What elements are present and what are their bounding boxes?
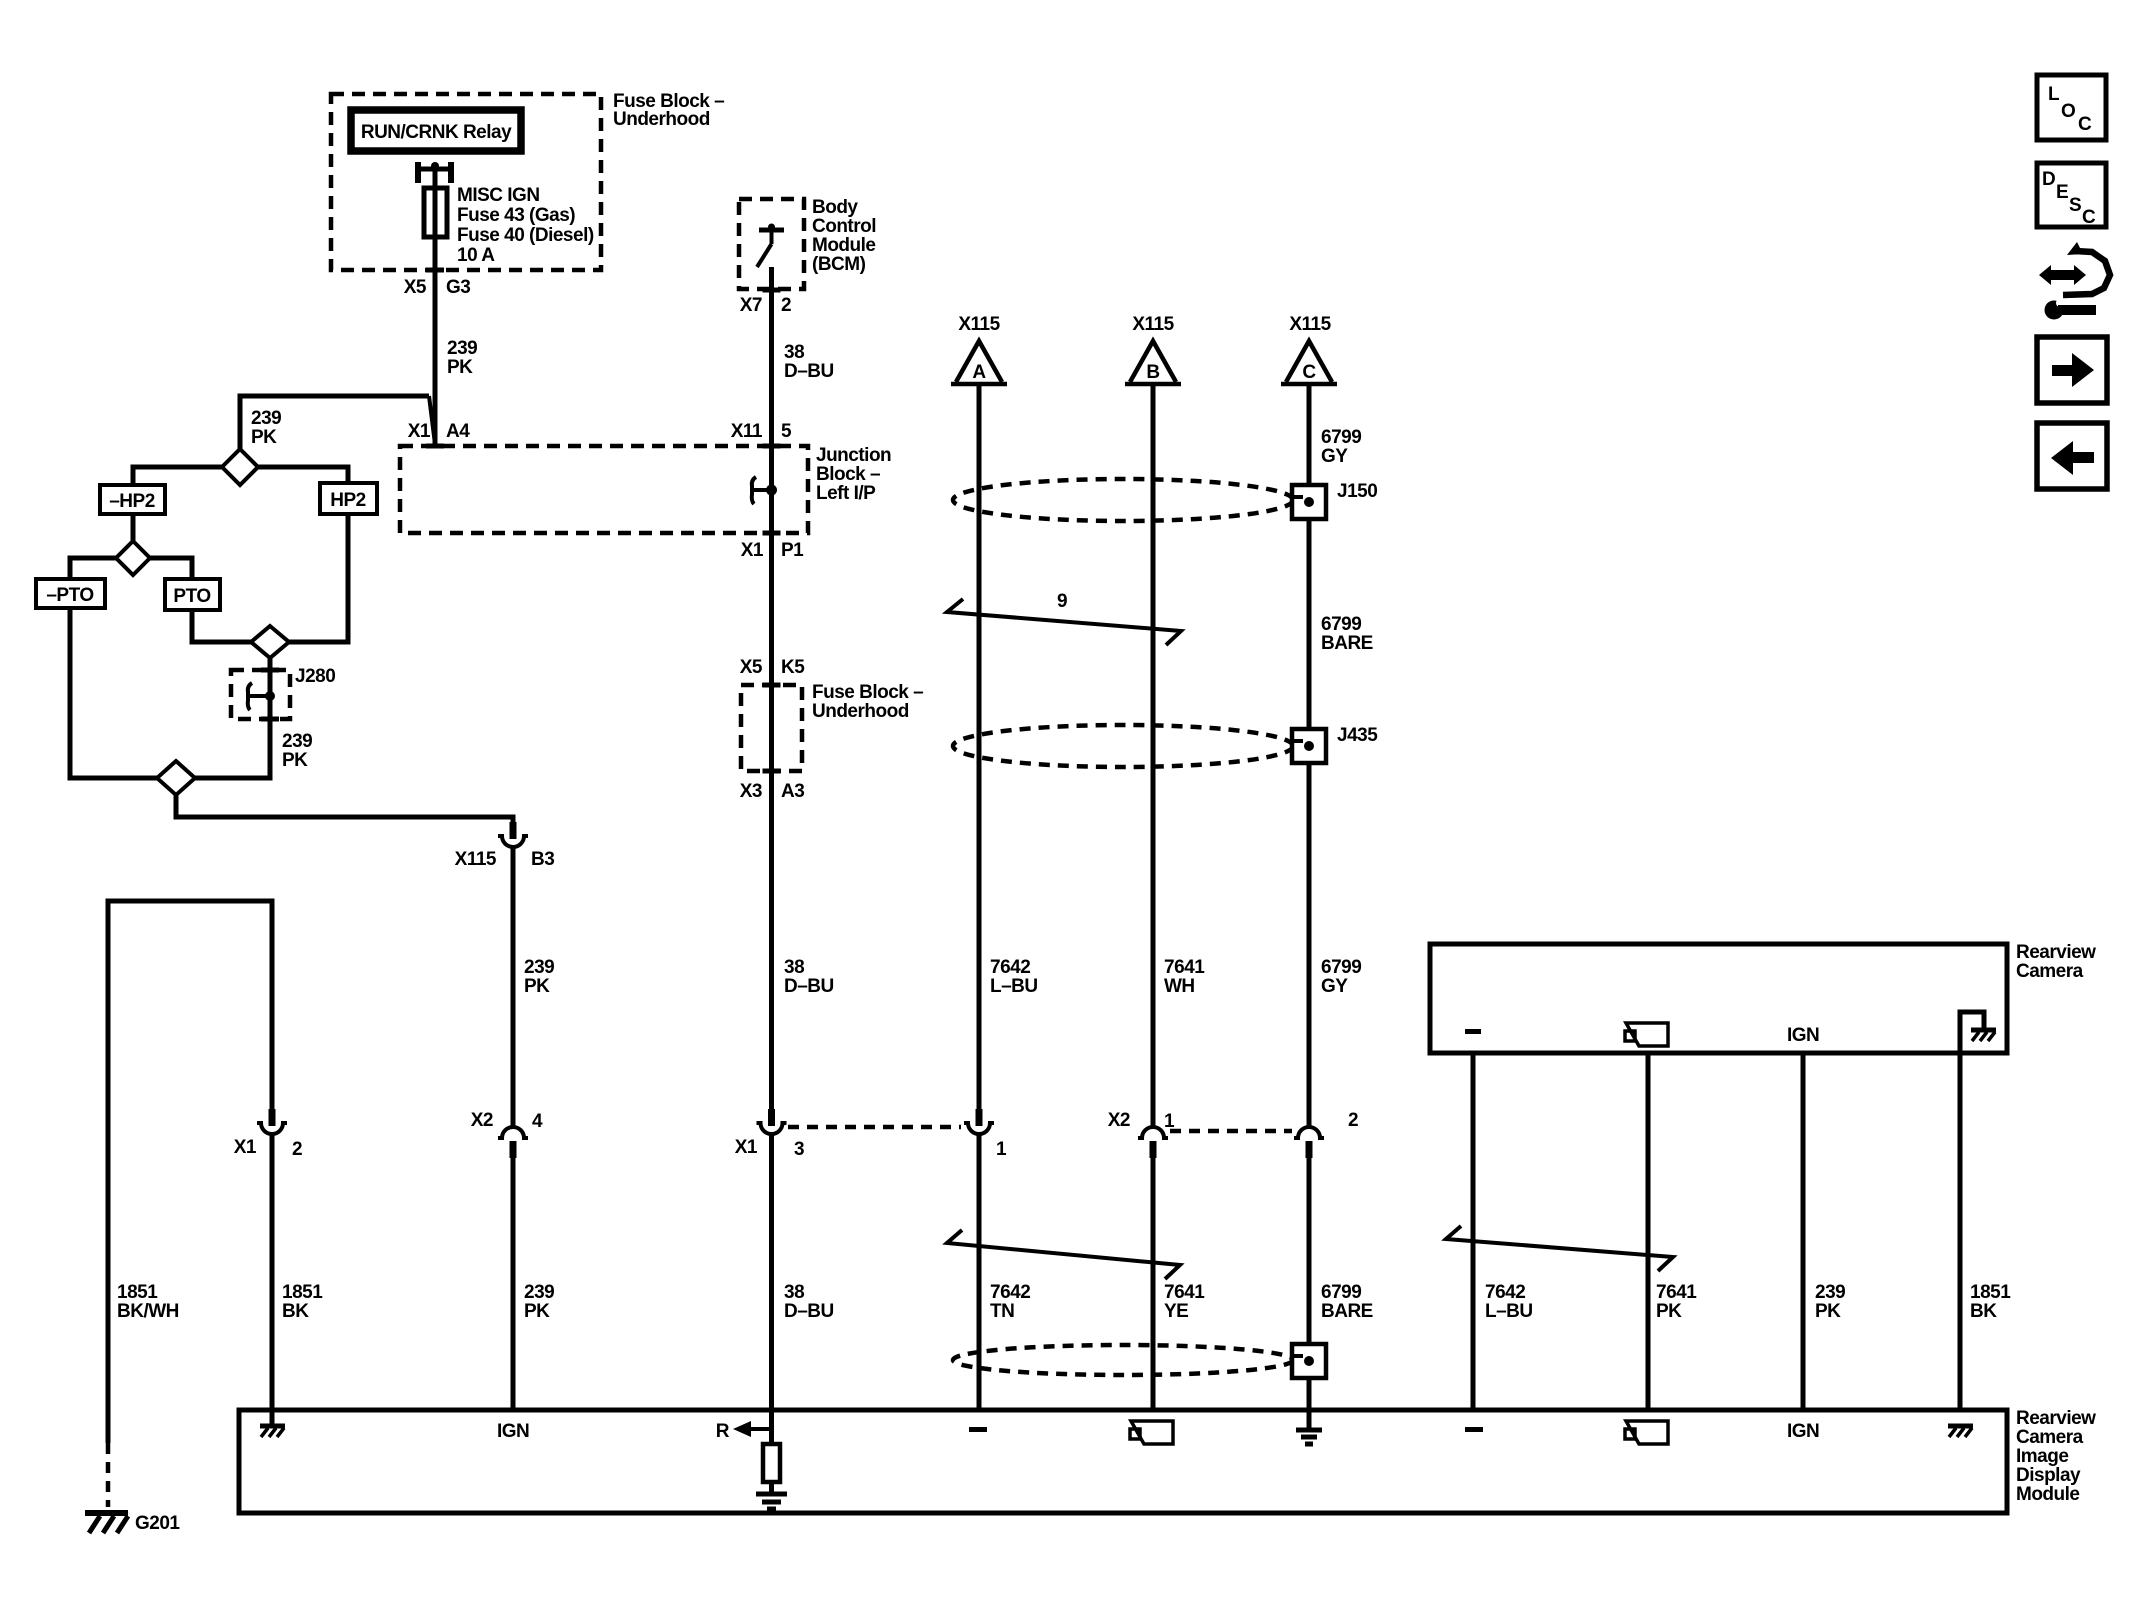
earth ground (wire C shield): [1296, 1430, 1322, 1444]
svg-text:9: 9: [1057, 591, 1067, 612]
svg-text:1851: 1851: [117, 1282, 158, 1303]
svg-text:4: 4: [532, 1111, 543, 1132]
svg-text:Body: Body: [812, 197, 858, 218]
label Rearview Camera Image Display Module: [2016, 1408, 2096, 1505]
wire through junction block: [769, 465, 774, 685]
svg-text:D–BU: D–BU: [784, 361, 834, 382]
wire 7642 L-BU camera to display: [1471, 1053, 1476, 1410]
svg-text:X115: X115: [958, 314, 1000, 335]
svg-text:Camera: Camera: [2016, 961, 2084, 982]
camera chassis ground symbol: [1971, 1030, 1996, 1041]
svg-text:MISC IGN: MISC IGN: [457, 185, 540, 206]
icon box LOC: [2037, 75, 2106, 140]
svg-text:X115: X115: [455, 849, 497, 870]
wire S4 to connector X115 B3: [176, 795, 513, 822]
shield ellipse 2: [953, 725, 1293, 767]
rearview camera box: [1430, 944, 2007, 1053]
label Rearview Camera: [2016, 942, 2096, 982]
fuse block underhood dashed box (middle): [741, 685, 802, 771]
svg-text:BARE: BARE: [1321, 1301, 1373, 1322]
pin tick X5/G3 at fuse block bottom: [426, 268, 444, 273]
display chassis ground (right): [1948, 1426, 1973, 1437]
svg-text:–PTO: –PTO: [46, 585, 93, 606]
connector J280 dashed box: [231, 670, 290, 719]
camera icon (display, right): [1625, 1421, 1668, 1444]
svg-text:X3: X3: [740, 781, 762, 802]
wire 6799 GY from triangle C: [1307, 384, 1312, 1126]
wire -PTO to splice S4: [70, 608, 157, 778]
svg-text:2: 2: [292, 1139, 302, 1160]
tick fuse block bottom X3/A3: [763, 769, 781, 774]
svg-text:Rearview: Rearview: [2016, 1408, 2096, 1429]
svg-text:IGN: IGN: [497, 1421, 529, 1442]
svg-text:X115: X115: [1289, 314, 1331, 335]
svg-text:D–BU: D–BU: [784, 1301, 834, 1322]
splice diamond S3: [251, 626, 289, 658]
icon box arrow left: [2037, 423, 2107, 489]
svg-text:Camera: Camera: [2016, 1427, 2084, 1448]
svg-text:7641: 7641: [1164, 1282, 1205, 1303]
svg-text:GY: GY: [1321, 446, 1348, 467]
icon box arrow right: [2037, 337, 2107, 403]
tick junction block top X1/A4: [426, 444, 444, 449]
svg-text:X2: X2: [471, 1110, 493, 1131]
svg-text:Fuse Block –: Fuse Block –: [812, 682, 923, 703]
svg-text:A3: A3: [781, 781, 804, 802]
svg-text:7642: 7642: [990, 1282, 1030, 1303]
svg-text:PK: PK: [524, 976, 550, 997]
svg-text:TN: TN: [990, 1301, 1014, 1322]
fuse F MISC IGN 10A: [424, 188, 447, 237]
svg-text:J435: J435: [1337, 725, 1378, 746]
svg-text:S: S: [2069, 195, 2081, 216]
svg-text:Control: Control: [812, 216, 876, 237]
camera icon (camera box): [1625, 1023, 1668, 1046]
junction block left I/P dashed box: [400, 446, 808, 533]
svg-text:J280: J280: [295, 666, 335, 687]
splice diamond S2: [116, 541, 150, 575]
wire J280 to splice S4: [195, 722, 270, 778]
wire 1851 BK camera to display: [1958, 1053, 1963, 1410]
svg-text:C: C: [2082, 207, 2096, 228]
svg-text:Left I/P: Left I/P: [816, 483, 876, 504]
svg-text:239: 239: [282, 731, 312, 752]
J280 terminal hook and dot: [248, 683, 252, 710]
svg-text:Image: Image: [2016, 1446, 2068, 1467]
wire count slash (lower left): [947, 1230, 1180, 1279]
display pin minus (wire A): [969, 1427, 987, 1432]
wire 7641 PK camera to display: [1646, 1053, 1651, 1410]
svg-text:R: R: [716, 1421, 730, 1442]
svg-text:5: 5: [781, 421, 792, 442]
svg-text:D–BU: D–BU: [784, 976, 834, 997]
label Body Control Module (BCM): [812, 197, 876, 275]
svg-text:10 A: 10 A: [457, 245, 495, 266]
icon box DESC: [2037, 163, 2106, 228]
display pin minus (right): [1465, 1427, 1483, 1432]
svg-text:IGN: IGN: [1787, 1421, 1819, 1442]
svg-text:7642: 7642: [1485, 1282, 1525, 1303]
svg-text:2: 2: [1348, 1110, 1358, 1131]
svg-text:239: 239: [524, 1282, 554, 1303]
svg-text:38: 38: [784, 342, 804, 363]
svg-text:J150: J150: [1337, 481, 1377, 502]
svg-text:Display: Display: [2016, 1465, 2081, 1486]
svg-text:Underhood: Underhood: [812, 701, 909, 722]
shield ellipse 1: [953, 479, 1293, 521]
svg-text:L–BU: L–BU: [990, 976, 1038, 997]
tick J280 bottom: [261, 717, 279, 722]
svg-text:X11: X11: [731, 421, 763, 442]
svg-text:GY: GY: [1321, 976, 1348, 997]
svg-text:BARE: BARE: [1321, 633, 1373, 654]
svg-text:PK: PK: [1815, 1301, 1841, 1322]
svg-text:(BCM): (BCM): [812, 254, 866, 275]
svg-text:6799: 6799: [1321, 614, 1361, 635]
svg-text:X2: X2: [1108, 1110, 1130, 1131]
wire 38 D-BU fuse block to connector X1-3: [769, 685, 774, 1126]
svg-text:PK: PK: [282, 750, 308, 771]
svg-text:6799: 6799: [1321, 427, 1361, 448]
earth ground below resistor: [756, 1494, 787, 1509]
svg-text:Module: Module: [2016, 1484, 2080, 1505]
svg-text:PK: PK: [524, 1301, 550, 1322]
fuse block underhood dashed box (top left): [331, 94, 601, 270]
svg-text:A4: A4: [446, 421, 470, 442]
svg-text:1851: 1851: [1970, 1282, 2011, 1303]
switch box PTO: [165, 579, 220, 610]
wire 7642 TN into display module: [977, 1134, 982, 1410]
svg-text:Rearview: Rearview: [2016, 942, 2096, 963]
switch box -PTO: [36, 579, 105, 608]
svg-text:X5: X5: [740, 657, 763, 678]
svg-text:Fuse 43 (Gas): Fuse 43 (Gas): [457, 205, 575, 226]
shield splice J435: [1292, 729, 1326, 763]
svg-text:X1: X1: [741, 540, 764, 561]
svg-text:X115: X115: [1132, 314, 1174, 335]
svg-text:L–BU: L–BU: [1485, 1301, 1533, 1322]
wire from relay through fuse down to junction block: [433, 171, 438, 446]
svg-text:7641: 7641: [1164, 957, 1205, 978]
camera internal ground hook: [1960, 1012, 1984, 1053]
wire resistor to earth ground: [769, 1482, 774, 1493]
svg-text:G3: G3: [446, 277, 470, 298]
tick junction block top X11/5: [763, 444, 781, 449]
dashed wire to G201: [106, 1443, 111, 1507]
svg-text:2: 2: [781, 295, 791, 316]
svg-text:YE: YE: [1164, 1301, 1188, 1322]
tick fuse block top X5/K5: [763, 683, 781, 688]
svg-text:O: O: [2061, 101, 2075, 122]
tick J280 top: [261, 668, 279, 673]
resistor (display internal): [763, 1444, 780, 1482]
svg-text:BK: BK: [1970, 1301, 1997, 1322]
svg-text:X1: X1: [408, 421, 431, 442]
left wire pair top link: [108, 901, 272, 1443]
svg-text:X5: X5: [404, 277, 427, 298]
rearview camera image display module box: [239, 1410, 2007, 1513]
svg-text:WH: WH: [1164, 976, 1195, 997]
svg-text:D: D: [2042, 169, 2055, 190]
junction block terminal hook and dot: [752, 477, 777, 504]
switch box -HP2: [100, 485, 165, 514]
icon connector repair (arrows and wrench): [2039, 242, 2110, 320]
wire S3 to J280: [268, 658, 273, 722]
svg-text:BK/WH: BK/WH: [117, 1301, 179, 1322]
wire HP2 to splice S3: [289, 514, 348, 642]
wire 239 PK down to X2-4 connector: [511, 847, 516, 1126]
svg-text:1851: 1851: [282, 1282, 323, 1303]
svg-text:A: A: [972, 362, 986, 383]
dashed link X1-3 to camera connector 1: [788, 1125, 961, 1130]
connector X115 pin B3 (inline): [498, 822, 528, 847]
svg-text:PK: PK: [1656, 1301, 1682, 1322]
svg-text:X1: X1: [234, 1137, 257, 1158]
svg-text:PTO: PTO: [173, 586, 210, 607]
connector pin 2 (inline, wire C): [1294, 1127, 1324, 1158]
wire 7641 WH from triangle B: [1151, 384, 1156, 1126]
wire 7642 L-BU from triangle A: [977, 384, 982, 1109]
wire 239 PK camera to display: [1801, 1053, 1806, 1410]
svg-text:C: C: [1302, 362, 1316, 383]
svg-text:L: L: [2048, 84, 2060, 105]
connector pin 1 (inline, wire A): [964, 1109, 994, 1134]
wire S1 to -HP2: [133, 467, 222, 485]
svg-text:X7: X7: [740, 295, 762, 316]
switch box HP2: [320, 483, 377, 514]
off-page triangle A X115: [951, 314, 1007, 384]
svg-text:Junction: Junction: [816, 445, 891, 466]
svg-text:IGN: IGN: [1787, 1025, 1819, 1046]
svg-text:–HP2: –HP2: [109, 491, 155, 512]
wire count slash (lower right): [1446, 1226, 1673, 1271]
svg-text:K5: K5: [781, 657, 805, 678]
svg-text:7641: 7641: [1656, 1282, 1697, 1303]
svg-text:239: 239: [251, 408, 281, 429]
relay K RUN/CRNK Relay box: [351, 110, 521, 151]
display pin R with arrow: [716, 1421, 772, 1442]
svg-text:BK: BK: [282, 1301, 309, 1322]
wire 7641 YE into display module: [1151, 1158, 1156, 1410]
svg-text:RUN/CRNK Relay: RUN/CRNK Relay: [361, 122, 512, 143]
svg-text:P1: P1: [781, 540, 804, 561]
svg-text:X1: X1: [735, 1137, 758, 1158]
svg-text:Fuse 40 (Diesel): Fuse 40 (Diesel): [457, 225, 594, 246]
svg-text:Block –: Block –: [816, 464, 880, 485]
label Junction Block - Left I/P: [816, 445, 891, 504]
label MISC IGN fuse value: [457, 185, 594, 266]
svg-text:PK: PK: [251, 427, 277, 448]
splice diamond S4: [157, 761, 195, 795]
svg-text:1: 1: [996, 1139, 1007, 1160]
wire PTO to splice S3: [192, 610, 251, 642]
svg-text:E: E: [2056, 182, 2068, 203]
wire branch to splices at y=395: [240, 396, 429, 449]
relay contact terminal symbol: [415, 162, 454, 183]
svg-text:PK: PK: [447, 357, 473, 378]
svg-text:G201: G201: [135, 1513, 180, 1534]
svg-text:38: 38: [784, 1282, 804, 1303]
camera pin minus: [1465, 1029, 1481, 1034]
wire 239 PK into display module: [511, 1158, 516, 1410]
off-page triangle C X115: [1281, 314, 1337, 384]
camera icon (display, wire B): [1130, 1421, 1173, 1444]
svg-text:C: C: [2078, 114, 2092, 135]
wire BCM output 38 D-BU: [769, 267, 774, 465]
dashed link X2-1 to connector 2: [1170, 1129, 1292, 1134]
wire count slash 9: [947, 599, 1181, 645]
tick BCM bottom X7/2: [763, 288, 781, 293]
wire S2 to PTO: [150, 558, 192, 579]
svg-text:6799: 6799: [1321, 1282, 1361, 1303]
svg-text:Underhood: Underhood: [613, 109, 710, 130]
svg-text:Module: Module: [812, 235, 876, 256]
svg-text:239: 239: [1815, 1282, 1845, 1303]
connector X2 pin 4 (inline): [498, 1127, 528, 1158]
connector X2 pin 1 (inline, wire B): [1138, 1127, 1168, 1158]
svg-text:B3: B3: [531, 849, 554, 870]
svg-text:B: B: [1146, 362, 1159, 383]
shield splice J150: [1292, 485, 1326, 519]
wire S2 to -PTO: [70, 558, 116, 579]
svg-text:239: 239: [447, 338, 477, 359]
wire 1851 BK into display module: [270, 1134, 275, 1424]
wire 38 D-BU into display module: [769, 1134, 774, 1444]
BCM dashed box: [739, 199, 804, 289]
splice diamond S1: [222, 449, 258, 485]
tick junction block bottom X1/P1: [763, 531, 781, 536]
shield splice (unlabeled): [1292, 1344, 1326, 1378]
svg-text:6799: 6799: [1321, 957, 1361, 978]
ground G201: [85, 1513, 128, 1533]
svg-text:38: 38: [784, 957, 804, 978]
wire S1 to HP2: [258, 467, 348, 483]
connector X1 pin 3 (inline): [757, 1109, 787, 1134]
svg-text:239: 239: [524, 957, 554, 978]
svg-text:7642: 7642: [990, 957, 1030, 978]
wire -HP2 to splice S2: [131, 514, 136, 541]
connector X1 pin 2 (inline): [257, 1109, 287, 1134]
shield ellipse 3: [953, 1345, 1293, 1375]
wire 6799 BARE into display module: [1307, 1158, 1312, 1428]
display chassis ground (left): [260, 1426, 285, 1437]
off-page triangle B X115: [1125, 314, 1181, 384]
svg-text:3: 3: [794, 1139, 804, 1160]
svg-text:HP2: HP2: [330, 490, 365, 511]
BCM driver switch symbol: [757, 224, 784, 268]
